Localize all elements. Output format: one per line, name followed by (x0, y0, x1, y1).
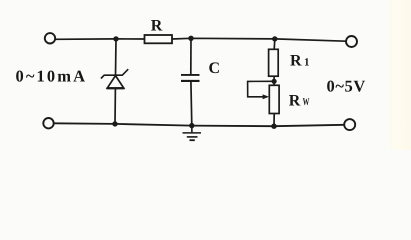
wire RW wiper loop (248, 81, 274, 97)
wire top rail right of R (172, 38, 346, 41)
ground bar 3 (190, 139, 195, 141)
svg-text:1: 1 (304, 57, 310, 69)
wire between R1 and RW (273, 76, 275, 85)
capacitor C bottom plate (181, 80, 200, 82)
junction dot RW bottom (271, 124, 276, 129)
zener diode VD anode base (107, 87, 125, 89)
ground bar 2 (187, 136, 198, 138)
junction dot ground (189, 123, 194, 128)
svg-text:0~5V: 0~5V (327, 77, 366, 96)
svg-text:R: R (290, 53, 302, 70)
wire capacitor branch top (190, 38, 192, 75)
svg-text:W: W (303, 97, 310, 108)
ground bar 1 (183, 132, 202, 134)
terminal input top (45, 33, 55, 43)
terminal output bottom (344, 119, 355, 130)
wire zener branch bottom (114, 89, 116, 124)
junction dot capacitor top (188, 36, 193, 41)
resistor R1 body (269, 49, 279, 76)
svg-text:0~10mA: 0~10mA (16, 67, 88, 86)
RW wiper arrow head (263, 94, 269, 99)
wire top rail (55, 38, 144, 40)
junction dot wiper tap (272, 79, 277, 84)
potentiometer RW body (269, 85, 279, 113)
terminal input bottom (43, 118, 53, 128)
ground stem (191, 126, 193, 133)
svg-text:R: R (289, 92, 301, 109)
resistor R body (145, 35, 173, 43)
wire R1 branch top (273, 39, 276, 49)
terminal output top (346, 36, 357, 47)
wire zener branch top (115, 39, 118, 75)
junction dot zener bottom (112, 121, 117, 126)
capacitor C top plate (181, 74, 200, 76)
wire capacitor branch bottom (190, 81, 193, 126)
zener diode VD triangle (107, 76, 123, 88)
zener diode VD cathode bar (101, 69, 128, 78)
svg-text:C: C (209, 60, 221, 77)
wire bottom rail (54, 123, 345, 126)
wire RW branch bottom (273, 114, 275, 127)
svg-text:R: R (151, 18, 163, 35)
junction dot zener top (113, 36, 118, 41)
junction dot R1 top (272, 36, 277, 41)
